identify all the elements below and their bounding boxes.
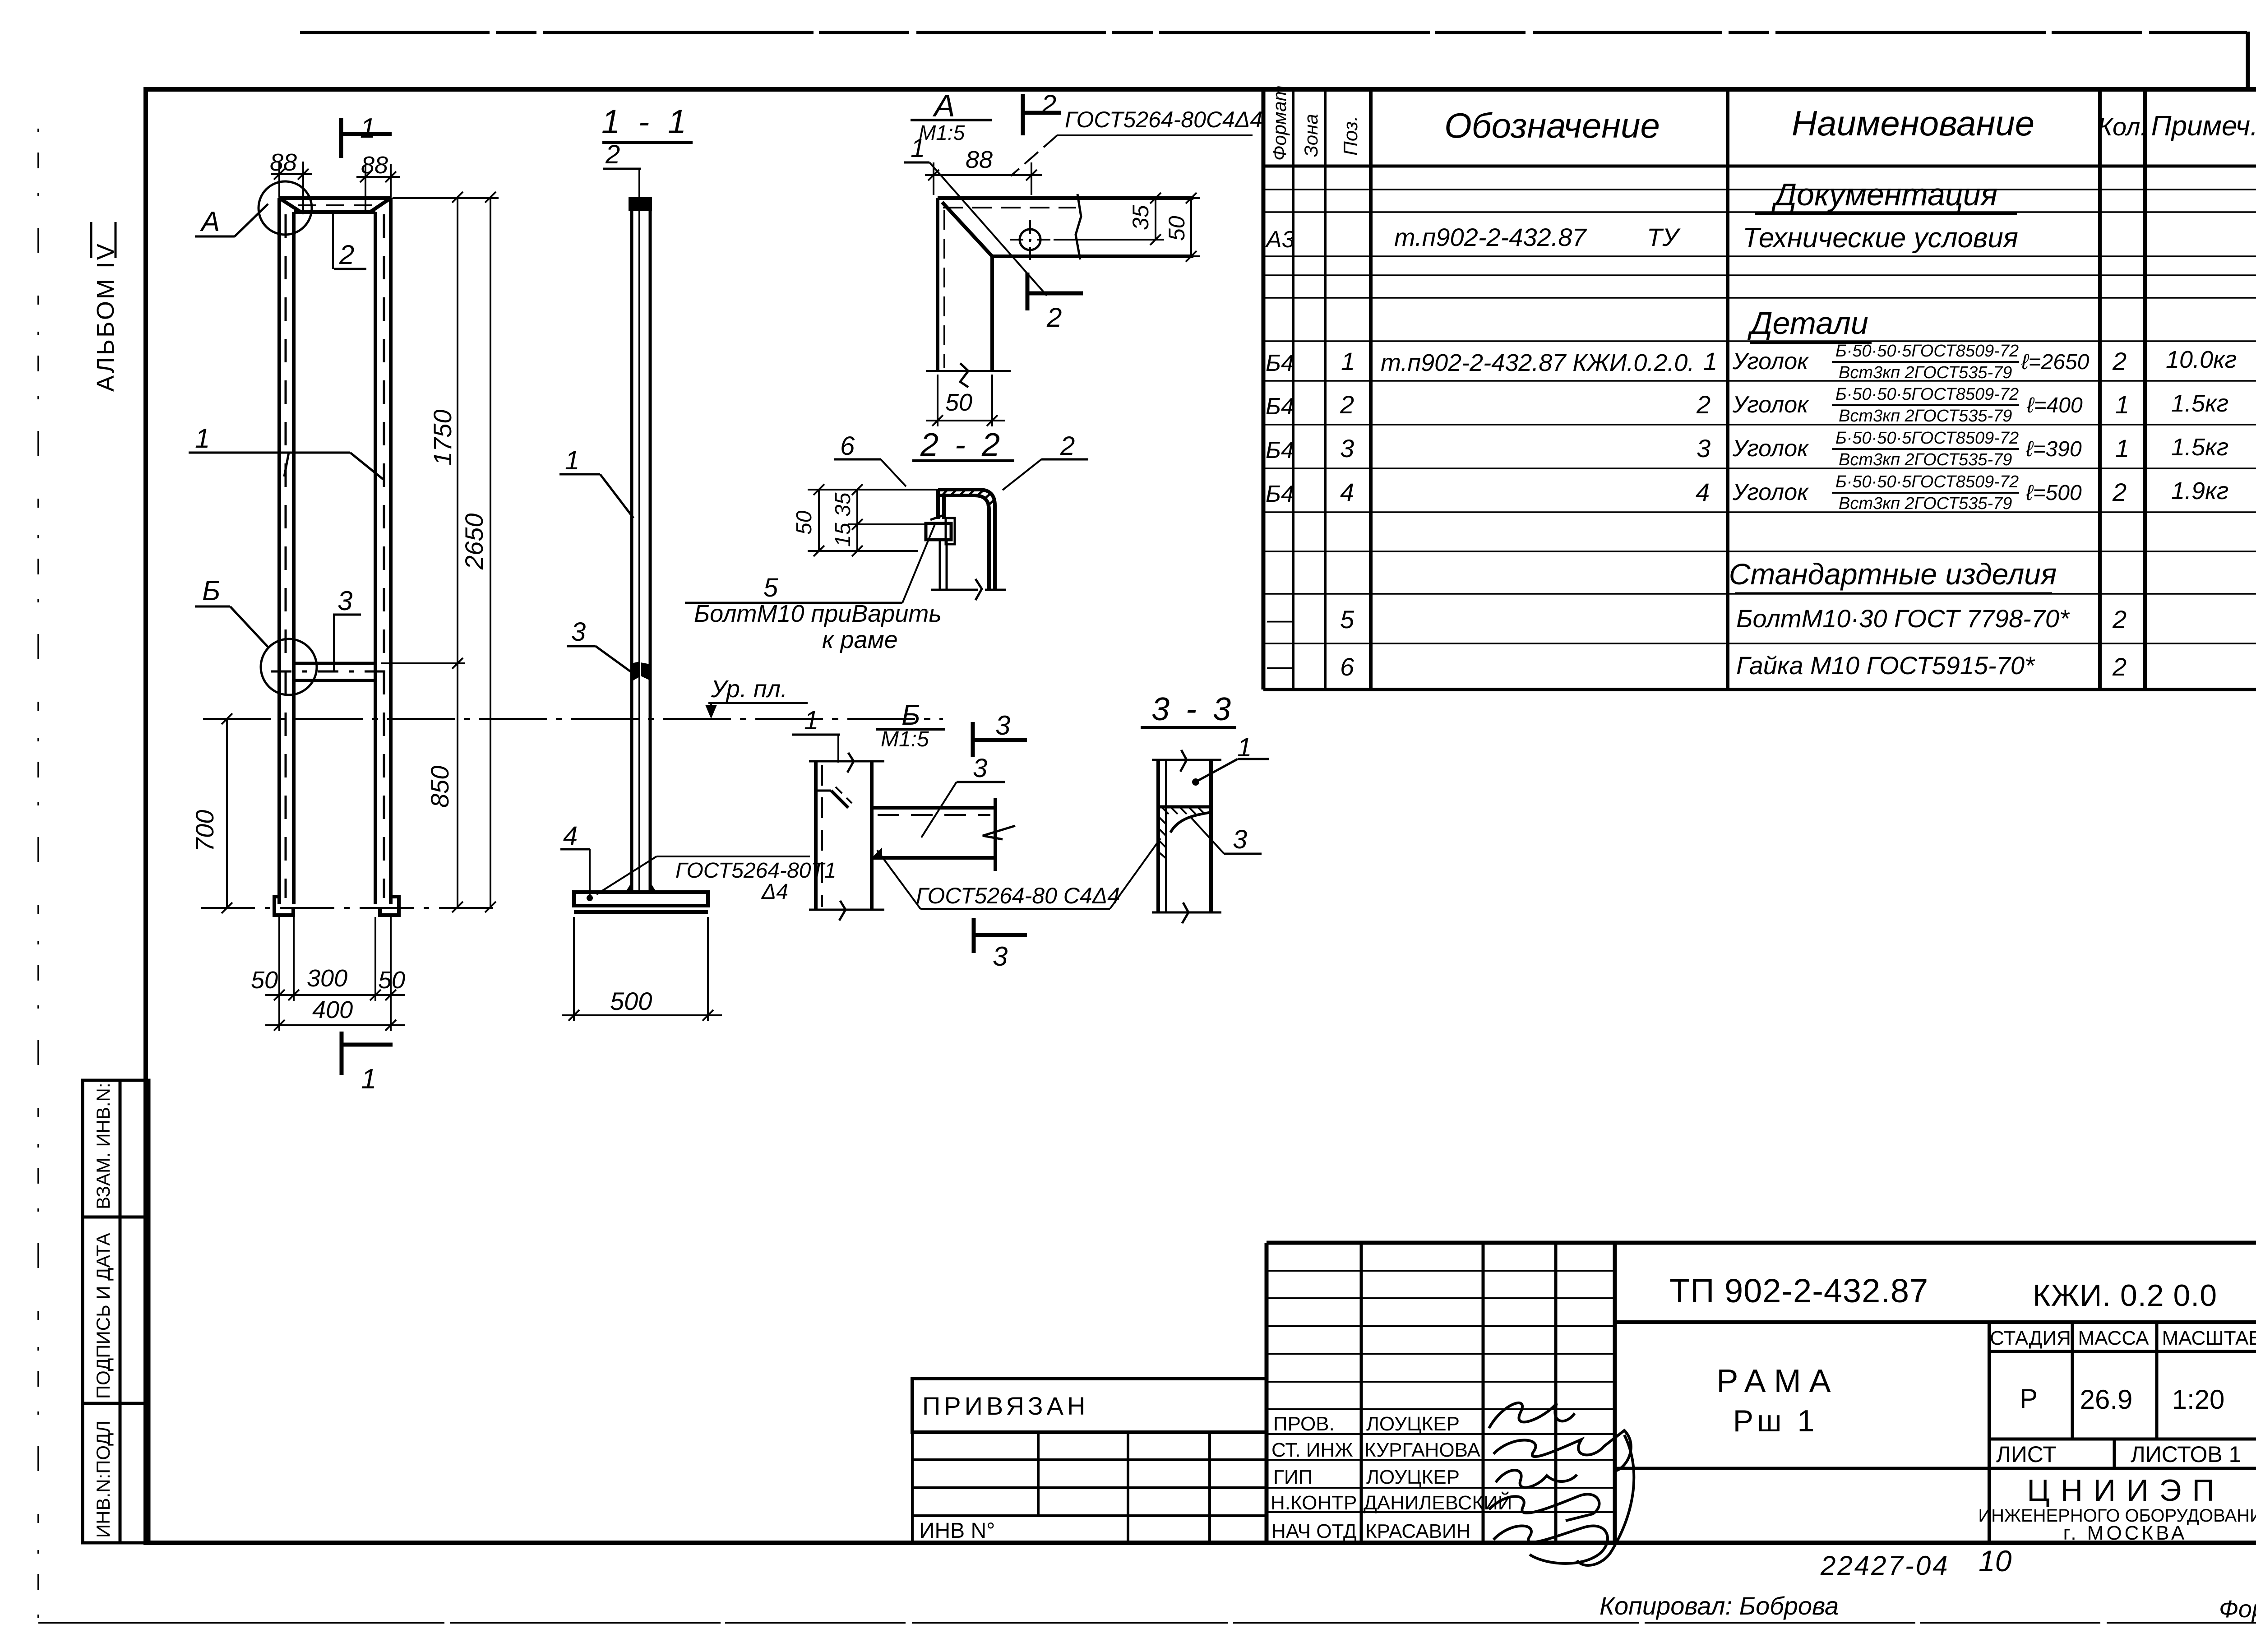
- svg-text:ГОСТ5264-80Т1: ГОСТ5264-80Т1: [675, 859, 836, 883]
- svg-text:1: 1: [1237, 733, 1252, 762]
- signatures scribbles: [1489, 1403, 1634, 1565]
- svg-text:ℓ=390: ℓ=390: [2025, 437, 2082, 461]
- title block outer: [1267, 1241, 2256, 1245]
- svg-text:850: 850: [425, 766, 454, 808]
- 3-3 bottom break: [1152, 912, 1221, 914]
- svg-text:КРАСАВИН: КРАСАВИН: [1365, 1520, 1470, 1542]
- svg-text:2: 2: [339, 240, 354, 270]
- svg-text:6: 6: [840, 431, 855, 461]
- svg-text:400: 400: [312, 996, 353, 1023]
- frame top bar outline: [279, 198, 391, 904]
- svg-text:А: А: [199, 206, 220, 237]
- svg-text:35: 35: [1128, 205, 1153, 230]
- svg-text:Ур. пл.: Ур. пл.: [711, 676, 787, 703]
- svg-text:А: А: [932, 88, 955, 123]
- svg-text:2 - 2: 2 - 2: [920, 427, 1003, 463]
- row lines: [1263, 190, 2256, 643]
- svg-text:ВЗАМ. ИНВ.N:: ВЗАМ. ИНВ.N:: [92, 1083, 114, 1209]
- LEFT_STAMPS: [83, 1080, 149, 1543]
- svg-text:1.5кг: 1.5кг: [2171, 434, 2228, 461]
- svg-text:ПОДПИСЬ И ДАТА: ПОДПИСЬ И ДАТА: [92, 1233, 114, 1399]
- svg-text:2: 2: [2112, 347, 2127, 375]
- svg-text:т.п902-2-432.87 КЖИ.0.2.0.: т.п902-2-432.87 КЖИ.0.2.0.: [1381, 349, 1694, 376]
- svg-text:ГОСТ5264-80 С4Δ4: ГОСТ5264-80 С4Δ4: [916, 883, 1120, 908]
- svg-text:ТУ: ТУ: [1647, 223, 1681, 251]
- top dash-dot trim line: [300, 31, 2247, 34]
- revision grid verticals: [1360, 1243, 1363, 1543]
- svg-text:10: 10: [1979, 1544, 2012, 1578]
- svg-text:2: 2: [2112, 605, 2127, 634]
- svg-text:Формат: Формат: [1269, 85, 1290, 161]
- svg-text:к раме: к раме: [822, 626, 898, 653]
- bolt with head: [926, 514, 955, 590]
- svg-text:Детали: Детали: [1747, 305, 1868, 341]
- svg-text:ЛОУЦКЕР: ЛОУЦКЕР: [1366, 1466, 1460, 1488]
- bottom extension dash line: [201, 907, 499, 909]
- svg-text:—: —: [1267, 605, 1293, 634]
- svg-text:5: 5: [1340, 605, 1355, 634]
- svg-text:3: 3: [995, 710, 1010, 740]
- svg-text:2: 2: [1046, 302, 1062, 333]
- svg-text:1.5кг: 1.5кг: [2171, 390, 2228, 417]
- detail circle А: [259, 181, 312, 235]
- svg-text:ГОСТ5264-80С4Δ4: ГОСТ5264-80С4Δ4: [1065, 107, 1262, 132]
- section mark 2 top: [1023, 94, 1061, 135]
- svg-text:Стандартные изделия: Стандартные изделия: [1729, 557, 2057, 591]
- angle section profile: [938, 490, 995, 590]
- main right cells: [1615, 1320, 2256, 1324]
- svg-text:Зона: Зона: [1300, 114, 1322, 157]
- mid joint weld of 1-1: [632, 662, 639, 681]
- base plate (item 4): [574, 892, 708, 912]
- уголок rows (наименование): [1732, 348, 1809, 505]
- bottom break 2-2: [931, 589, 978, 591]
- svg-text:5: 5: [763, 573, 778, 602]
- кол: [2112, 347, 2129, 506]
- svg-text:ЛИСТОВ 1: ЛИСТОВ 1: [2131, 1442, 2241, 1467]
- svg-text:1: 1: [2115, 390, 2129, 419]
- bottom dims 50 300 50 / 400: [265, 917, 405, 1031]
- svg-text:А3: А3: [1265, 227, 1295, 253]
- section mark 3 top: [973, 722, 1027, 757]
- svg-text:КУРГАНОВА: КУРГАНОВА: [1364, 1439, 1481, 1461]
- svg-text:СТ. ИНЖ: СТ. ИНЖ: [1271, 1439, 1353, 1461]
- svg-text:2: 2: [1041, 89, 1056, 120]
- svg-text:50: 50: [1164, 216, 1189, 241]
- svg-text:1 - 1: 1 - 1: [601, 103, 691, 140]
- svg-text:Уголок: Уголок: [1732, 435, 1809, 462]
- bracket end break: [983, 826, 1015, 839]
- dim 500: [562, 917, 722, 1021]
- svg-text:2: 2: [1696, 390, 1710, 419]
- column of 1-1 (item 1 side view): [632, 203, 650, 892]
- left foot hook: [274, 897, 399, 915]
- svg-text:2: 2: [605, 140, 620, 169]
- dims 35 / 50 right: [1054, 193, 1200, 262]
- Б bottom break: [809, 909, 884, 911]
- bottom thin margin border: [38, 1622, 2256, 1624]
- svg-text:ПРИВЯЗАН: ПРИВЯЗАН: [922, 1392, 1089, 1420]
- section mark 1 (bottom): [342, 1032, 393, 1075]
- привязан box: [912, 1379, 1267, 1432]
- 3-3 top break: [1152, 759, 1221, 761]
- svg-text:Б4: Б4: [1266, 437, 1294, 463]
- table verticals: [1262, 89, 1266, 689]
- svg-text:50: 50: [792, 510, 816, 535]
- svg-text:Вст3кп 2ГОСТ535-79: Вст3кп 2ГОСТ535-79: [1839, 494, 2012, 513]
- svg-text:ЦНИИЭП: ЦНИИЭП: [2027, 1473, 2225, 1508]
- svg-text:1: 1: [911, 134, 925, 163]
- svg-text:1: 1: [195, 423, 210, 453]
- svg-text:Копировал: Боброва: Копировал: Боброва: [1600, 1592, 1839, 1620]
- svg-text:ГИП: ГИП: [1273, 1466, 1313, 1488]
- angle corner outline: [938, 198, 1079, 371]
- svg-text:ЛОУЦКЕР: ЛОУЦКЕР: [1366, 1413, 1460, 1435]
- section mark 1 (top): [341, 118, 392, 158]
- svg-text:3: 3: [1233, 825, 1247, 854]
- подписи labels: [1271, 1413, 1512, 1542]
- svg-text:Уголок: Уголок: [1732, 392, 1809, 418]
- svg-text:Б·50·50·5ГОСТ8509-72: Б·50·50·5ГОСТ8509-72: [1835, 429, 2019, 448]
- dims 50 35 15: [808, 484, 938, 556]
- svg-text:3: 3: [993, 941, 1008, 972]
- svg-text:Формат: Формат: [2219, 1596, 2256, 1623]
- dim vertical 2650 line: [485, 192, 496, 912]
- svg-text:4: 4: [563, 821, 578, 851]
- dim 700 left: [222, 713, 232, 913]
- section mark 2 bottom: [1027, 273, 1083, 310]
- svg-text:БолтМ10·30 ГОСТ 7798-70*: БолтМ10·30 ГОСТ 7798-70*: [1736, 604, 2070, 633]
- svg-text:35: 35: [831, 492, 855, 517]
- svg-text:Обозначение: Обозначение: [1444, 106, 1660, 145]
- svg-text:Наименование: Наименование: [1792, 103, 2034, 143]
- svg-text:Р: Р: [2020, 1384, 2038, 1414]
- svg-text:КЖИ. 0.2 0.0: КЖИ. 0.2 0.0: [2033, 1278, 2217, 1313]
- svg-text:Б4: Б4: [1266, 350, 1294, 376]
- svg-text:Б·50·50·5ГОСТ8509-72: Б·50·50·5ГОСТ8509-72: [1835, 472, 2019, 491]
- svg-text:ДАНИЛЕВСКИЙ: ДАНИЛЕВСКИЙ: [1364, 1491, 1512, 1514]
- svg-text:Б4: Б4: [1266, 393, 1294, 420]
- svg-text:3: 3: [1340, 434, 1354, 463]
- svg-text:т.п902-2-432.87: т.п902-2-432.87: [1394, 223, 1587, 251]
- svg-text:50: 50: [945, 389, 972, 416]
- bracket section hatched: [1158, 805, 1211, 809]
- svg-text:4: 4: [1696, 478, 1710, 506]
- svg-text:1.9кг: 1.9кг: [2171, 477, 2228, 504]
- svg-text:Рш 1: Рш 1: [1733, 1404, 1818, 1438]
- svg-text:Б4: Б4: [1266, 481, 1294, 507]
- dim vertical 1750/850 line: [381, 192, 499, 912]
- bottom break of vertical leg: [926, 370, 1011, 372]
- svg-text:ℓ=500: ℓ=500: [2025, 481, 2082, 505]
- svg-text:АЛЬБОМ IV: АЛЬБОМ IV: [92, 242, 119, 392]
- column top cap (item 2 side): [629, 197, 652, 211]
- svg-text:ТП 902-2-432.87: ТП 902-2-432.87: [1669, 1272, 1928, 1310]
- svg-text:Вст3кп 2ГОСТ535-79: Вст3кп 2ГОСТ535-79: [1839, 407, 2012, 426]
- section mark 3 bottom: [974, 918, 1027, 953]
- corner hatch: [942, 490, 994, 506]
- svg-text:РАМА: РАМА: [1716, 1363, 1839, 1399]
- svg-text:22427-04: 22427-04: [1820, 1550, 1950, 1581]
- svg-text:Кол.: Кол.: [2098, 112, 2147, 141]
- svg-text:ЛИСТ: ЛИСТ: [1996, 1442, 2057, 1467]
- weld at plate: [625, 882, 632, 892]
- svg-text:Вст3кп 2ГОСТ535-79: Вст3кп 2ГОСТ535-79: [1839, 450, 2012, 469]
- svg-text:Б: Б: [901, 699, 920, 731]
- svg-text:1: 1: [360, 113, 375, 144]
- svg-text:МАСШТАБ: МАСШТАБ: [2162, 1327, 2256, 1349]
- bracket item 3: [872, 798, 995, 871]
- svg-text:Б: Б: [202, 575, 220, 606]
- svg-text:Уголок: Уголок: [1732, 479, 1809, 505]
- svg-text:3 - 3: 3 - 3: [1151, 691, 1234, 727]
- svg-text:ИНВ N°: ИНВ N°: [919, 1519, 995, 1543]
- svg-text:50: 50: [378, 967, 405, 994]
- weld triangle at joint: [872, 847, 882, 858]
- page number cell divider: [2246, 32, 2250, 87]
- svg-text:2: 2: [1060, 431, 1075, 461]
- svg-text:2: 2: [2112, 652, 2127, 681]
- svg-text:Б·50·50·5ГОСТ8509-72: Б·50·50·5ГОСТ8509-72: [1835, 385, 2019, 404]
- svg-text:3: 3: [337, 586, 352, 616]
- svg-text:БолтМ10 приВарить: БолтМ10 приВарить: [694, 600, 942, 627]
- svg-text:Поз.: Поз.: [1340, 116, 1362, 156]
- svg-text:1750: 1750: [428, 409, 457, 466]
- svg-text:3: 3: [571, 617, 586, 647]
- svg-text:НАЧ ОТД: НАЧ ОТД: [1271, 1520, 1357, 1542]
- svg-text:ПРОВ.: ПРОВ.: [1273, 1413, 1335, 1435]
- table header bottom: [1263, 165, 2256, 168]
- svg-text:88: 88: [966, 146, 993, 173]
- detail circle Б: [261, 639, 317, 695]
- hidden dash lines: [943, 207, 1076, 208]
- svg-text:2650: 2650: [460, 513, 488, 570]
- svg-text:Б·50·50·5ГОСТ8509-72: Б·50·50·5ГОСТ8509-72: [1835, 342, 2019, 361]
- svg-text:Технические условия: Технические условия: [1743, 222, 2018, 254]
- svg-text:ℓ=2650: ℓ=2650: [2021, 350, 2090, 374]
- svg-text:1:20: 1:20: [2172, 1384, 2225, 1415]
- FRONT_VIEW: [259, 181, 399, 915]
- svg-text:г. МОСКВА: г. МОСКВА: [2063, 1522, 2187, 1544]
- svg-text:ℓ=400: ℓ=400: [2026, 393, 2083, 417]
- svg-text:3: 3: [1697, 434, 1710, 463]
- svg-text:26.9: 26.9: [2080, 1384, 2133, 1415]
- 3-3 column: [1158, 760, 1211, 912]
- cross bar (item 3): [294, 663, 375, 680]
- svg-text:—: —: [1267, 652, 1293, 680]
- Б top break: [809, 760, 884, 763]
- svg-text:СТАДИЯ: СТАДИЯ: [1990, 1327, 2071, 1349]
- left upright hidden dashed: [285, 214, 287, 898]
- svg-text:50: 50: [251, 967, 278, 994]
- svg-text:1: 1: [1341, 347, 1355, 375]
- svg-text:МАССА: МАССА: [2078, 1327, 2150, 1349]
- stamp boxes column: [83, 1080, 149, 1543]
- svg-text:Δ4: Δ4: [761, 880, 788, 904]
- right upright hidden dashed: [383, 214, 385, 898]
- svg-text:1: 1: [565, 446, 579, 475]
- ground level dash-dot line: [203, 718, 943, 720]
- svg-text:Гайка М10 ГОСТ5915-70*: Гайка М10 ГОСТ5915-70*: [1736, 651, 2035, 680]
- bolt hole: [1020, 229, 1040, 250]
- svg-text:3: 3: [973, 754, 987, 783]
- svg-text:ИНВ.N:ПОДЛ: ИНВ.N:ПОДЛ: [92, 1421, 114, 1538]
- svg-text:700: 700: [190, 810, 219, 852]
- svg-text:Н.КОНТР: Н.КОНТР: [1271, 1492, 1357, 1514]
- svg-text:Вст3кп 2ГОСТ535-79: Вст3кп 2ГОСТ535-79: [1839, 363, 2012, 382]
- table bottom: [1263, 688, 2256, 691]
- svg-text:Примеч.: Примеч.: [2151, 111, 2256, 142]
- svg-text:1: 1: [361, 1064, 376, 1095]
- примеч: [2166, 346, 2237, 504]
- svg-text:1: 1: [1703, 347, 1717, 375]
- svg-text:Уголок: Уголок: [1732, 348, 1809, 375]
- svg-text:300: 300: [307, 965, 347, 992]
- hidden dashed lines of top bar: [298, 204, 374, 206]
- svg-text:М1:5: М1:5: [881, 727, 929, 751]
- svg-text:2: 2: [2112, 478, 2127, 506]
- svg-text:88: 88: [270, 149, 297, 176]
- svg-text:15: 15: [831, 523, 855, 547]
- svg-text:Документация: Документация: [1771, 177, 1998, 212]
- revision grid rows: [1267, 1271, 1615, 1512]
- TITLE_BLOCK: [912, 1243, 2256, 1543]
- svg-text:500: 500: [610, 987, 652, 1015]
- left lower grid: [912, 1432, 1267, 1543]
- svg-text:М1:5: М1:5: [919, 121, 965, 144]
- right leg of detail with break: [1079, 198, 1193, 256]
- svg-text:6: 6: [1340, 652, 1355, 681]
- svg-text:2: 2: [1340, 390, 1354, 419]
- svg-text:1: 1: [804, 706, 818, 735]
- svg-text:4: 4: [1340, 478, 1354, 506]
- chamfer weld at top: [831, 791, 848, 808]
- left thin margin border (dashed scan look): [37, 129, 39, 1623]
- svg-text:10.0кг: 10.0кг: [2166, 346, 2237, 373]
- Б column: [816, 761, 872, 910]
- svg-text:1: 1: [2115, 434, 2129, 463]
- SPEC_TABLE: [1263, 89, 2256, 689]
